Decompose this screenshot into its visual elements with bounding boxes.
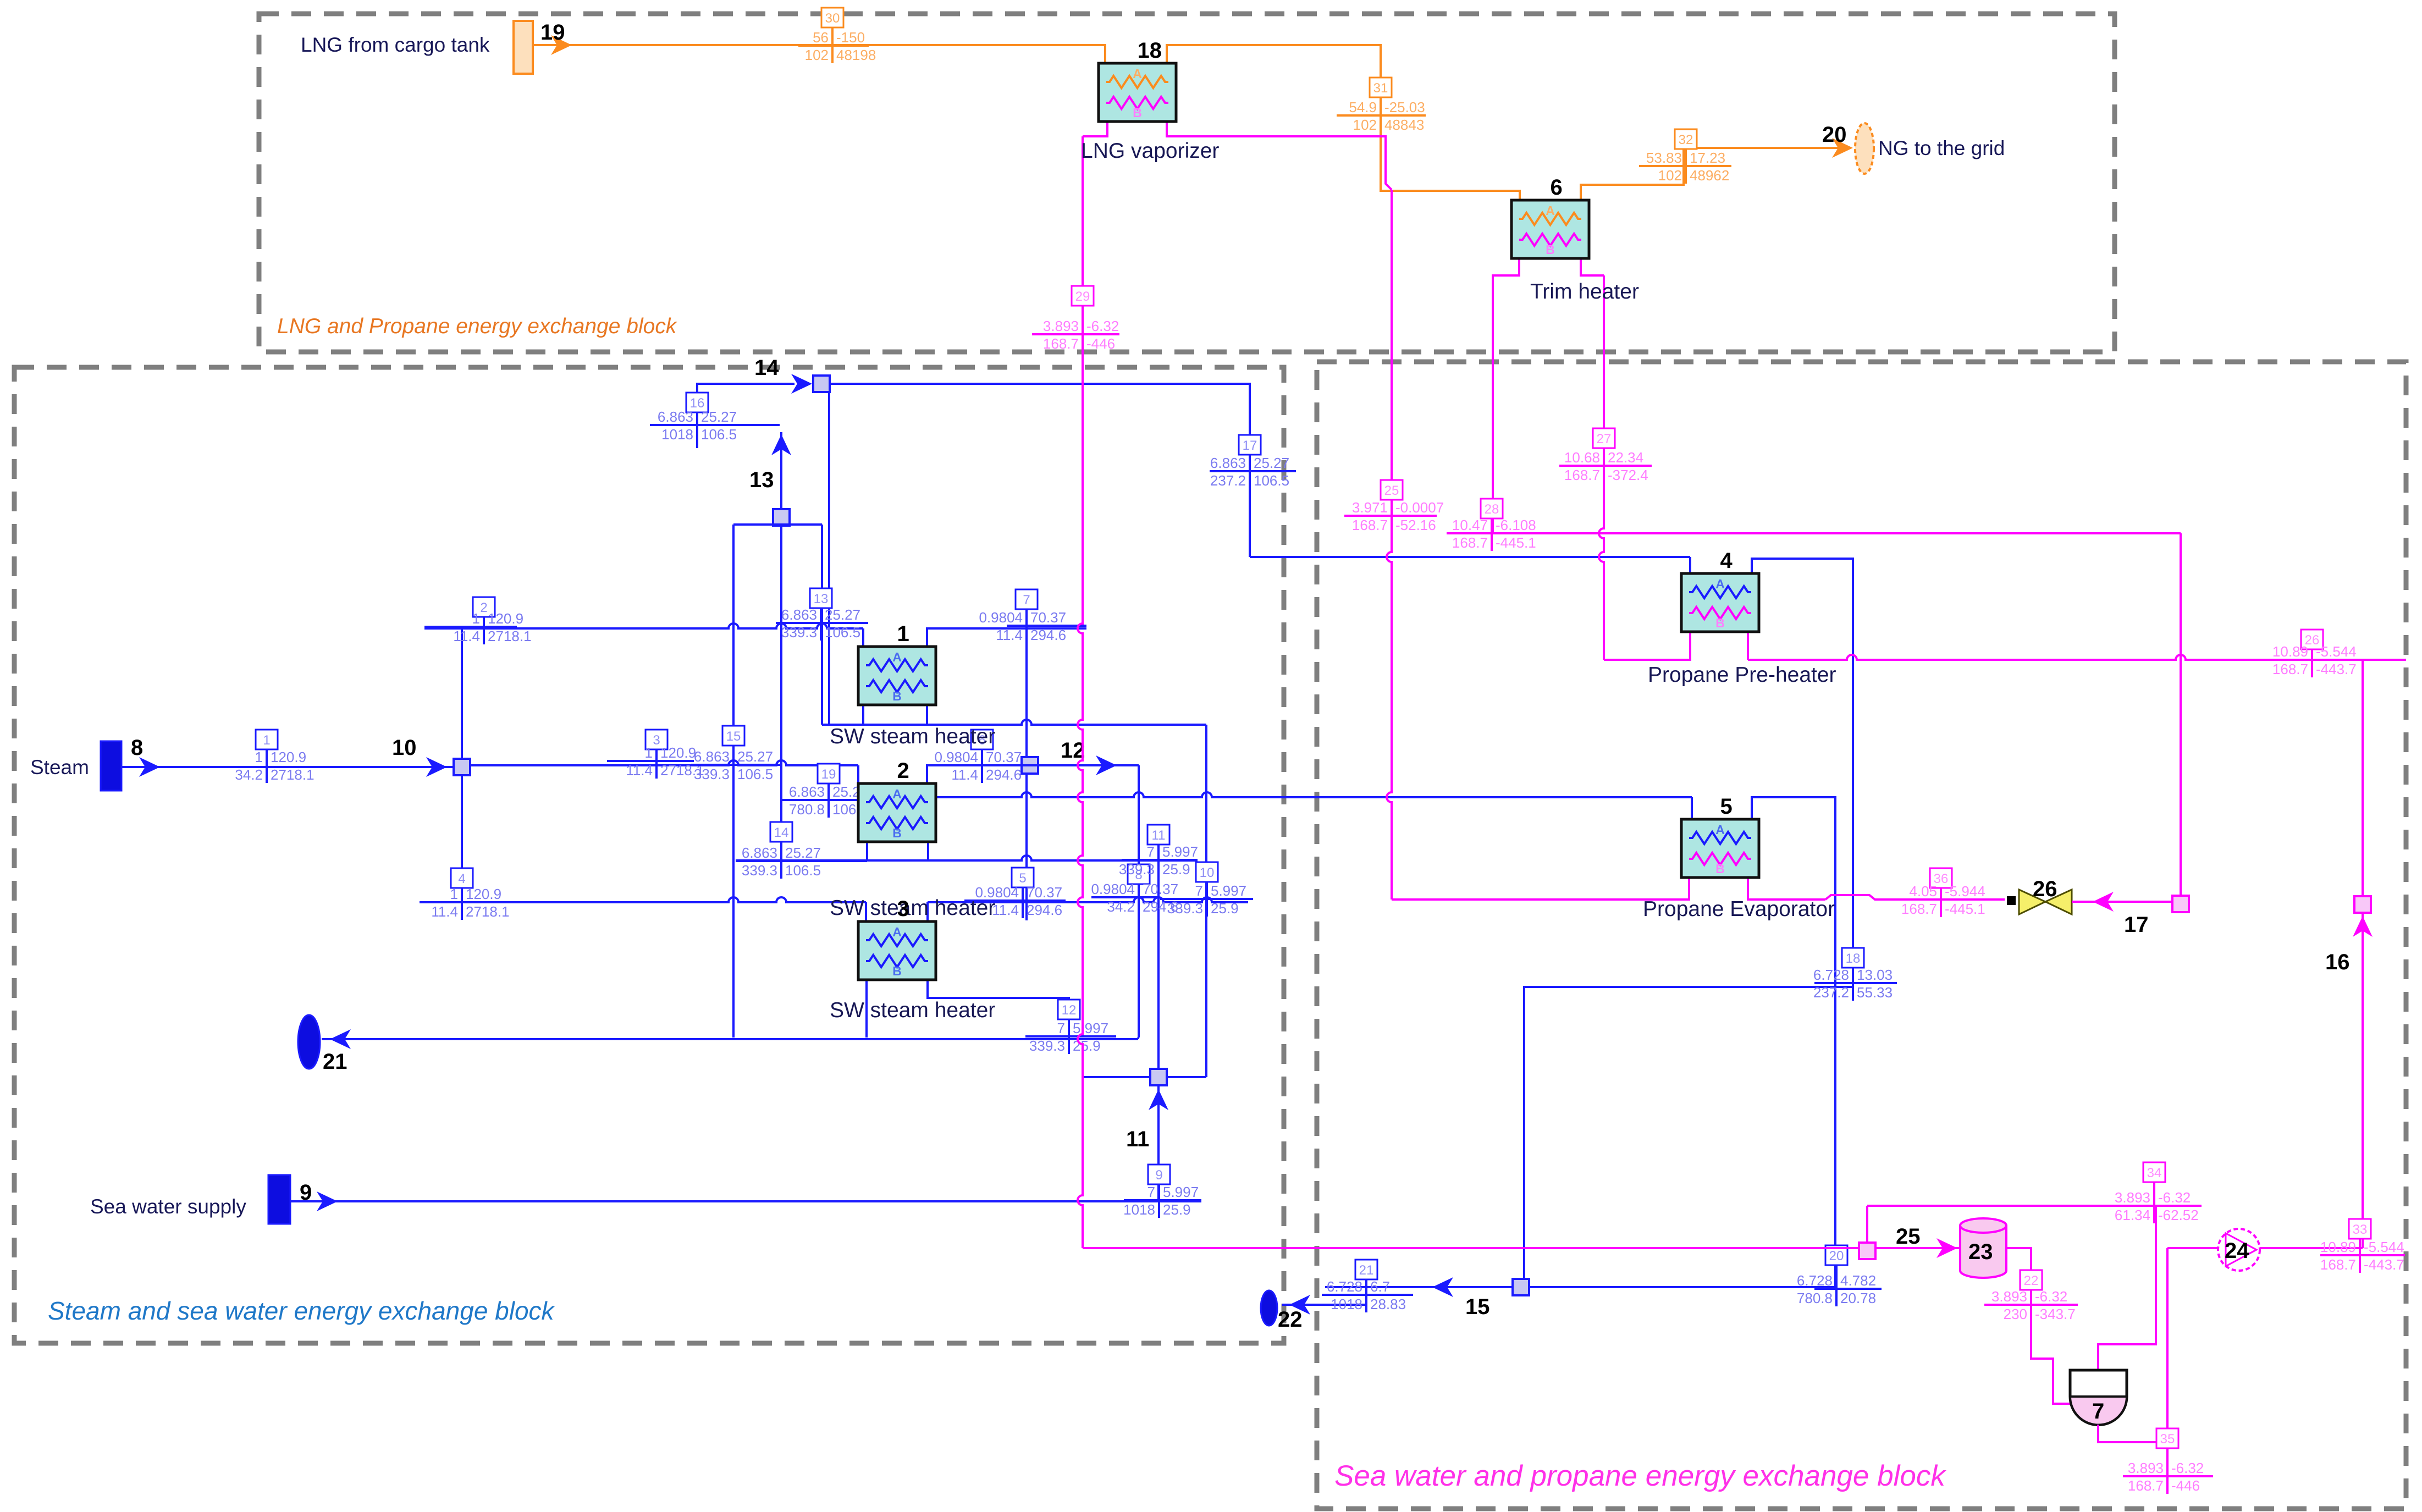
svg-text:20: 20 xyxy=(1822,123,1847,147)
svg-text:Sea water and propane energy e: Sea water and propane energy exchange bl… xyxy=(1334,1460,1946,1492)
svg-text:25.27: 25.27 xyxy=(785,845,821,861)
svg-text:8: 8 xyxy=(131,736,143,760)
svg-text:-443.7: -443.7 xyxy=(2364,1256,2404,1273)
svg-text:27: 27 xyxy=(1597,432,1612,446)
svg-text:25.27: 25.27 xyxy=(825,606,860,623)
svg-text:25.27: 25.27 xyxy=(737,748,773,765)
svg-text:168.7: 168.7 xyxy=(2272,661,2308,677)
svg-text:4: 4 xyxy=(458,871,465,886)
svg-text:33: 33 xyxy=(2353,1222,2368,1237)
svg-text:5.997: 5.997 xyxy=(1073,1020,1108,1036)
svg-text:25.2: 25.2 xyxy=(832,783,860,800)
svg-text:1: 1 xyxy=(472,610,480,627)
svg-text:SW steam heater: SW steam heater xyxy=(830,998,995,1022)
svg-text:35: 35 xyxy=(2160,1432,2175,1447)
svg-text:Propane Evaporator: Propane Evaporator xyxy=(1643,897,1835,921)
svg-text:1018: 1018 xyxy=(1123,1201,1155,1218)
svg-text:6.863: 6.863 xyxy=(1210,455,1246,471)
svg-text:19: 19 xyxy=(821,767,836,782)
svg-text:5.997: 5.997 xyxy=(1163,1184,1199,1200)
svg-text:-25.03: -25.03 xyxy=(1384,99,1425,115)
svg-text:10.68: 10.68 xyxy=(1564,449,1600,466)
svg-text:-5.544: -5.544 xyxy=(2316,643,2357,660)
svg-text:3.893: 3.893 xyxy=(2128,1460,2164,1476)
svg-text:22: 22 xyxy=(1278,1307,1303,1332)
svg-text:2718.1: 2718.1 xyxy=(488,628,532,644)
svg-text:106.5: 106.5 xyxy=(1254,472,1289,489)
svg-text:106.: 106. xyxy=(832,801,860,818)
svg-text:10: 10 xyxy=(392,736,417,760)
svg-text:1018: 1018 xyxy=(1331,1296,1362,1312)
svg-text:-445.1: -445.1 xyxy=(1945,901,1985,917)
svg-text:6.863: 6.863 xyxy=(781,606,817,623)
svg-text:339.3: 339.3 xyxy=(1029,1038,1065,1054)
svg-text:B: B xyxy=(1715,862,1725,876)
svg-text:25.9: 25.9 xyxy=(1162,861,1190,878)
svg-text:11.4: 11.4 xyxy=(453,628,480,644)
svg-text:6.728: 6.728 xyxy=(1797,1272,1833,1289)
svg-text:11: 11 xyxy=(1126,1127,1149,1151)
svg-text:25.27: 25.27 xyxy=(1254,455,1289,471)
svg-text:10.89: 10.89 xyxy=(2320,1239,2356,1255)
svg-text:2: 2 xyxy=(480,600,487,615)
svg-text:34.2: 34.2 xyxy=(1107,898,1135,915)
svg-text:-6.32: -6.32 xyxy=(2035,1288,2067,1305)
svg-text:21: 21 xyxy=(1359,1263,1374,1278)
svg-text:14: 14 xyxy=(774,825,789,840)
svg-text:11.4: 11.4 xyxy=(431,903,458,920)
svg-text:70.37: 70.37 xyxy=(1027,884,1062,901)
svg-text:A: A xyxy=(892,787,902,801)
svg-text:780.8: 780.8 xyxy=(1797,1290,1833,1306)
svg-text:70.37: 70.37 xyxy=(986,749,1022,765)
svg-text:26: 26 xyxy=(2033,877,2057,901)
svg-text:70.37: 70.37 xyxy=(1030,609,1066,626)
svg-text:9: 9 xyxy=(1155,1168,1162,1183)
svg-text:5.997: 5.997 xyxy=(1211,882,1246,899)
svg-text:4.782: 4.782 xyxy=(1840,1272,1876,1289)
svg-text:6: 6 xyxy=(1551,175,1563,200)
svg-text:237.2: 237.2 xyxy=(1813,984,1849,1001)
svg-text:-343.7: -343.7 xyxy=(2035,1306,2076,1322)
svg-text:168.7: 168.7 xyxy=(1043,335,1079,352)
svg-text:11.4: 11.4 xyxy=(626,762,653,779)
svg-text:168.7: 168.7 xyxy=(1452,534,1488,551)
svg-text:168.7: 168.7 xyxy=(2320,1256,2356,1273)
svg-text:6.728: 6.728 xyxy=(1813,967,1849,983)
svg-text:17: 17 xyxy=(1243,438,1257,453)
svg-text:15: 15 xyxy=(1465,1295,1490,1319)
svg-text:28: 28 xyxy=(1485,502,1499,517)
svg-text:102: 102 xyxy=(1658,167,1682,184)
svg-text:1018: 1018 xyxy=(661,426,693,443)
svg-text:7: 7 xyxy=(2092,1399,2104,1423)
svg-text:B: B xyxy=(1715,616,1725,630)
svg-text:-6.32: -6.32 xyxy=(1086,318,1119,334)
svg-text:17.23: 17.23 xyxy=(1690,150,1725,166)
svg-text:168.7: 168.7 xyxy=(1352,517,1388,533)
svg-text:22: 22 xyxy=(2024,1273,2039,1288)
svg-text:0.9804: 0.9804 xyxy=(934,749,978,765)
svg-text:12: 12 xyxy=(1061,738,1085,763)
svg-text:13: 13 xyxy=(814,592,829,606)
svg-text:-446: -446 xyxy=(1086,335,1115,352)
svg-text:21: 21 xyxy=(323,1050,347,1074)
svg-text:3: 3 xyxy=(653,733,660,748)
svg-text:-443.7: -443.7 xyxy=(2316,661,2357,677)
svg-text:1: 1 xyxy=(897,622,909,646)
svg-text:7: 7 xyxy=(1147,1184,1155,1200)
svg-text:230: 230 xyxy=(2004,1306,2027,1322)
svg-text:29: 29 xyxy=(1075,289,1090,304)
svg-text:55.33: 55.33 xyxy=(1857,984,1893,1001)
svg-text:10.89: 10.89 xyxy=(2272,643,2308,660)
svg-text:13.03: 13.03 xyxy=(1857,967,1893,983)
svg-text:B: B xyxy=(1546,242,1555,257)
svg-text:18: 18 xyxy=(1138,38,1162,63)
svg-text:70.37: 70.37 xyxy=(1143,881,1178,897)
svg-text:3.893: 3.893 xyxy=(2115,1189,2150,1206)
svg-text:17: 17 xyxy=(2124,913,2149,937)
svg-text:A: A xyxy=(1133,67,1142,81)
svg-text:7: 7 xyxy=(1147,843,1155,860)
svg-text:LNG vaporizer: LNG vaporizer xyxy=(1081,139,1219,163)
svg-text:294.6: 294.6 xyxy=(1030,627,1066,643)
svg-text:Trim heater: Trim heater xyxy=(1530,280,1639,303)
svg-text:B: B xyxy=(892,689,902,703)
svg-text:A: A xyxy=(1546,203,1555,218)
svg-text:25: 25 xyxy=(1384,483,1399,498)
svg-text:294.6: 294.6 xyxy=(1027,902,1062,918)
svg-text:339.3: 339.3 xyxy=(694,766,730,782)
svg-text:LNG from cargo tank: LNG from cargo tank xyxy=(301,34,490,56)
svg-text:54.9: 54.9 xyxy=(1349,99,1377,115)
svg-text:0.9804: 0.9804 xyxy=(1091,881,1135,897)
svg-text:7: 7 xyxy=(1023,593,1030,608)
svg-text:19: 19 xyxy=(540,20,565,45)
svg-text:168.7: 168.7 xyxy=(1564,467,1600,483)
svg-text:780.8: 780.8 xyxy=(789,801,825,818)
svg-text:B: B xyxy=(892,964,902,978)
svg-text:1: 1 xyxy=(263,733,270,748)
svg-text:-446: -446 xyxy=(2171,1477,2200,1494)
svg-text:6.863: 6.863 xyxy=(742,845,777,861)
svg-text:12: 12 xyxy=(1062,1003,1077,1018)
svg-text:1: 1 xyxy=(450,886,458,902)
svg-text:-445.1: -445.1 xyxy=(1496,534,1536,551)
svg-text:0.9804: 0.9804 xyxy=(979,609,1023,626)
svg-text:294.6: 294.6 xyxy=(986,766,1022,783)
svg-text:22.34: 22.34 xyxy=(1608,449,1643,466)
svg-text:6.863: 6.863 xyxy=(789,783,825,800)
svg-text:-0.0007: -0.0007 xyxy=(1395,499,1444,516)
svg-text:15: 15 xyxy=(726,729,741,744)
svg-text:11: 11 xyxy=(1152,828,1166,843)
svg-text:34.2: 34.2 xyxy=(235,766,263,783)
svg-text:-6.32: -6.32 xyxy=(2171,1460,2204,1476)
svg-text:B: B xyxy=(1133,106,1142,120)
svg-text:61.34: 61.34 xyxy=(2115,1207,2150,1223)
svg-text:53.83: 53.83 xyxy=(1646,150,1682,166)
svg-text:120.9: 120.9 xyxy=(488,610,523,627)
svg-text:25: 25 xyxy=(1896,1224,1921,1249)
svg-text:6.728: 6.728 xyxy=(1327,1278,1362,1295)
svg-text:Steam and sea water energy exc: Steam and sea water energy exchange bloc… xyxy=(48,1296,555,1325)
svg-text:5: 5 xyxy=(1720,794,1733,819)
svg-text:106.5: 106.5 xyxy=(701,426,737,443)
svg-text:B: B xyxy=(892,826,902,840)
svg-text:48962: 48962 xyxy=(1690,167,1729,184)
svg-text:106.5: 106.5 xyxy=(825,624,860,641)
svg-text:339.3: 339.3 xyxy=(1119,861,1155,878)
svg-text:32: 32 xyxy=(1679,133,1693,147)
svg-text:11.4: 11.4 xyxy=(996,627,1023,643)
svg-text:7: 7 xyxy=(1195,882,1203,899)
svg-text:-6.32: -6.32 xyxy=(2158,1189,2191,1206)
svg-text:Steam: Steam xyxy=(30,756,89,779)
svg-text:-52.16: -52.16 xyxy=(1395,517,1436,533)
svg-text:-372.4: -372.4 xyxy=(1608,467,1648,483)
svg-text:48198: 48198 xyxy=(836,47,876,63)
svg-text:SW steam heater: SW steam heater xyxy=(830,896,995,920)
svg-text:106.5: 106.5 xyxy=(737,766,773,782)
svg-text:56: 56 xyxy=(813,29,829,46)
svg-text:-6.108: -6.108 xyxy=(1496,517,1536,533)
svg-text:339.3: 339.3 xyxy=(1167,900,1203,917)
svg-text:13: 13 xyxy=(749,468,774,492)
svg-text:2: 2 xyxy=(897,759,909,783)
svg-text:25.9: 25.9 xyxy=(1211,900,1239,917)
svg-text:NG to the grid: NG to the grid xyxy=(1878,137,2005,159)
svg-text:25.27: 25.27 xyxy=(701,409,737,425)
svg-text:6.863: 6.863 xyxy=(694,748,730,765)
svg-text:25.9: 25.9 xyxy=(1163,1201,1191,1218)
svg-text:339.3: 339.3 xyxy=(781,624,817,641)
svg-text:102: 102 xyxy=(1353,117,1377,133)
svg-text:-150: -150 xyxy=(836,29,865,46)
svg-text:31: 31 xyxy=(1373,81,1388,96)
svg-text:6.7: 6.7 xyxy=(1370,1278,1390,1295)
svg-text:6.863: 6.863 xyxy=(658,409,693,425)
svg-text:3.893: 3.893 xyxy=(1043,318,1079,334)
svg-text:339.3: 339.3 xyxy=(742,862,777,879)
svg-text:30: 30 xyxy=(825,11,840,26)
svg-text:10: 10 xyxy=(1200,865,1215,880)
svg-text:102: 102 xyxy=(805,47,829,63)
svg-text:LNG and Propane energy exchang: LNG and Propane energy exchange block xyxy=(277,314,678,338)
svg-text:48843: 48843 xyxy=(1384,117,1424,133)
svg-text:1: 1 xyxy=(255,749,263,765)
svg-text:24: 24 xyxy=(2225,1239,2249,1263)
svg-text:7: 7 xyxy=(1057,1020,1065,1036)
svg-text:A: A xyxy=(892,925,902,939)
svg-text:A: A xyxy=(892,650,902,664)
svg-text:10.47: 10.47 xyxy=(1452,517,1488,533)
svg-text:120.9: 120.9 xyxy=(660,744,696,761)
svg-text:-5.944: -5.944 xyxy=(1945,883,1985,900)
svg-text:34: 34 xyxy=(2147,1166,2162,1180)
svg-text:A: A xyxy=(1715,823,1725,837)
svg-text:120.9: 120.9 xyxy=(271,749,306,765)
svg-text:2718.1: 2718.1 xyxy=(466,903,510,920)
svg-text:3: 3 xyxy=(897,897,909,921)
svg-text:20: 20 xyxy=(1829,1249,1844,1263)
svg-text:Sea water supply: Sea water supply xyxy=(90,1195,246,1218)
svg-text:14: 14 xyxy=(754,356,779,380)
svg-text:Propane Pre-heater: Propane Pre-heater xyxy=(1648,663,1836,687)
svg-text:-62.52: -62.52 xyxy=(2158,1207,2199,1223)
svg-text:28.83: 28.83 xyxy=(1370,1296,1406,1312)
svg-text:-5.544: -5.544 xyxy=(2364,1239,2404,1255)
svg-text:4.05: 4.05 xyxy=(1909,883,1937,900)
svg-text:120.9: 120.9 xyxy=(466,886,501,902)
svg-text:1: 1 xyxy=(645,744,653,761)
svg-text:106.5: 106.5 xyxy=(785,862,821,879)
svg-text:9: 9 xyxy=(300,1180,312,1205)
svg-text:3.893: 3.893 xyxy=(1991,1288,2027,1305)
svg-text:11.4: 11.4 xyxy=(992,902,1019,918)
svg-text:16: 16 xyxy=(2325,950,2350,974)
svg-text:168.7: 168.7 xyxy=(1901,901,1937,917)
svg-text:20.78: 20.78 xyxy=(1840,1290,1876,1306)
svg-text:5: 5 xyxy=(1019,871,1026,886)
svg-text:237.2: 237.2 xyxy=(1210,472,1246,489)
svg-text:11.4: 11.4 xyxy=(951,766,978,783)
svg-text:23: 23 xyxy=(1968,1240,1993,1264)
svg-text:SW steam heater: SW steam heater xyxy=(830,725,995,748)
svg-text:2718.1: 2718.1 xyxy=(271,766,315,783)
svg-text:A: A xyxy=(1715,577,1725,591)
svg-text:3.971: 3.971 xyxy=(1352,499,1388,516)
svg-text:168.7: 168.7 xyxy=(2128,1477,2164,1494)
svg-text:5.997: 5.997 xyxy=(1162,843,1198,860)
svg-text:18: 18 xyxy=(1846,951,1861,966)
svg-text:4: 4 xyxy=(1720,549,1733,573)
